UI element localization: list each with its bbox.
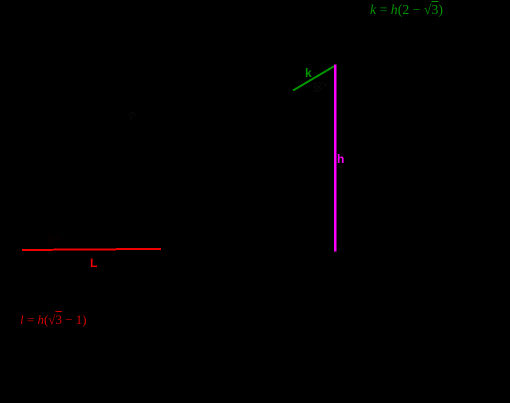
wire: magenta vertical segment h (334, 65, 336, 252)
node label: formula k = h(2 - sqrt3) (370, 2, 443, 18)
faint angle text above red line (46, 236, 60, 246)
node label: h (337, 152, 344, 166)
node label: L (90, 256, 97, 270)
faint angle text near apex (313, 83, 327, 93)
node label: formula l = h(sqrt3 - 1) (20, 312, 87, 328)
node label: k (305, 66, 312, 80)
wire: red horizontal segment l (22, 249, 161, 250)
wire: green segment k (293, 66, 335, 91)
faint diagonal mark (125, 108, 138, 121)
